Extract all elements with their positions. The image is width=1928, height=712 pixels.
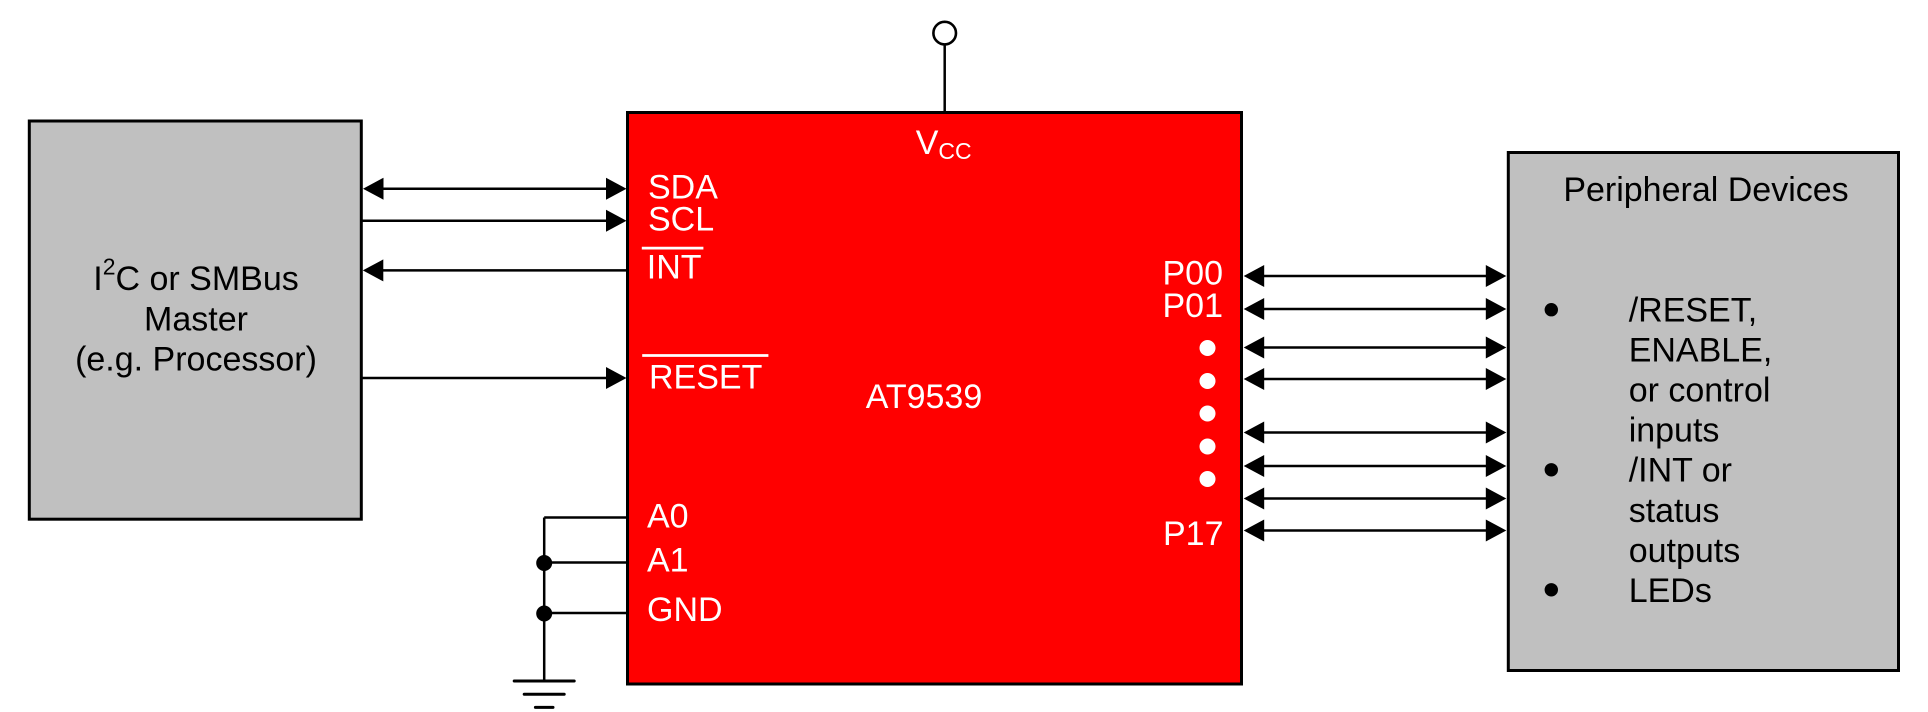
svg-text:LEDs: LEDs xyxy=(1629,572,1712,610)
wire SCL into IC xyxy=(362,220,612,223)
svg-text:ENABLE,: ENABLE, xyxy=(1629,331,1773,369)
svg-text:SCL: SCL xyxy=(648,201,714,239)
wire port 4 xyxy=(1258,378,1492,381)
svg-text:RESET: RESET xyxy=(649,359,762,397)
svg-text:inputs: inputs xyxy=(1629,412,1720,450)
list text xyxy=(1629,291,1773,610)
wire INT out of IC xyxy=(378,269,628,272)
wire A1 xyxy=(544,561,628,564)
wire: VCC to IC xyxy=(943,45,946,112)
svg-text:status: status xyxy=(1629,492,1720,530)
wire port 7 xyxy=(1258,497,1492,500)
svg-text:(e.g. Processor): (e.g. Processor) xyxy=(75,341,317,379)
svg-text:INT: INT xyxy=(647,249,702,287)
ground symbol xyxy=(514,681,574,707)
svg-text:/INT or: /INT or xyxy=(1629,452,1732,490)
bullet 3 xyxy=(1545,583,1558,596)
svg-text:/RESET,: /RESET, xyxy=(1629,291,1757,329)
wire GND xyxy=(544,612,628,615)
block: Peripheral Devices xyxy=(1508,153,1898,671)
svg-text:P17: P17 xyxy=(1163,515,1224,553)
svg-text:Peripheral Devices: Peripheral Devices xyxy=(1563,171,1848,209)
port arrows P00..P17 bidirectional (8) xyxy=(1244,265,1507,542)
pin label RESET with overline xyxy=(642,354,768,357)
pin label INT with overline xyxy=(642,247,704,250)
svg-text:outputs: outputs xyxy=(1629,532,1741,570)
wire P01 xyxy=(1258,308,1492,311)
svg-text:Master: Master xyxy=(144,301,248,339)
svg-text:or control: or control xyxy=(1629,372,1771,410)
wire A0 xyxy=(544,516,628,519)
junction at A1 xyxy=(536,555,552,571)
svg-text:AT9539: AT9539 xyxy=(866,378,983,416)
svg-text:A1: A1 xyxy=(647,542,689,580)
svg-text:P01: P01 xyxy=(1163,287,1224,325)
wire port 3 xyxy=(1258,346,1492,349)
bullet 1 xyxy=(1545,303,1558,316)
svg-text:I2C or SMBus: I2C or SMBus xyxy=(93,254,299,298)
ellipsis dots on IC right pins xyxy=(1200,340,1216,356)
wire P17 xyxy=(1258,529,1492,532)
IC U1: AT9539 red body xyxy=(628,113,1242,685)
wire RESET into IC xyxy=(362,377,612,380)
junction at GND xyxy=(536,606,552,622)
wire: address strap vertical xyxy=(543,518,546,680)
svg-text:A0: A0 xyxy=(647,497,689,535)
wire port 5 xyxy=(1258,431,1492,434)
svg-text:GND: GND xyxy=(647,591,723,629)
wire port 6 xyxy=(1258,465,1492,468)
wire SDA bidirectional xyxy=(378,187,612,190)
pin VCC terminal circle xyxy=(933,22,956,45)
wire P00 xyxy=(1258,275,1492,278)
bullet 2 xyxy=(1545,463,1558,476)
block: I2C or SMBus Master xyxy=(29,121,361,519)
